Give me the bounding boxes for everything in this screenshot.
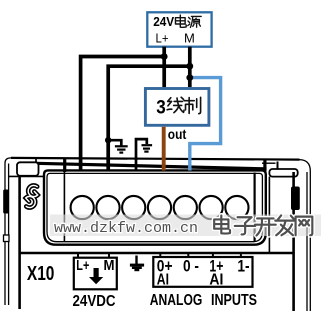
tick M <box>108 254 110 259</box>
brown wire out to analog input 0+ <box>162 127 166 171</box>
left black clip <box>3 190 9 214</box>
tick L+ <box>77 254 79 259</box>
module top step <box>35 159 37 164</box>
watermark text 电子开发网 <box>214 215 312 235</box>
3-wire transducer box 3线制 <box>145 89 209 126</box>
svg-text:24V: 24V <box>153 14 174 29</box>
ground label symbol <box>130 256 144 272</box>
module second top line <box>36 163 267 169</box>
terminal screw 1 <box>71 196 94 219</box>
tick 0+ <box>159 254 161 258</box>
svg-text:out: out <box>168 126 187 142</box>
module top edge <box>11 158 300 160</box>
svg-text:AI: AI <box>157 271 169 288</box>
junction node M lower <box>186 74 193 81</box>
ground symbol 1 bars <box>115 146 128 152</box>
svg-text:M: M <box>104 257 115 274</box>
junction node wire B <box>105 137 111 143</box>
cover right edge upper segment <box>263 159 266 172</box>
wire L+ to module terminal 1 <box>81 57 165 171</box>
tick 1- <box>240 254 242 258</box>
svg-text:0 -: 0 - <box>183 257 199 275</box>
terminal screw 3 <box>122 196 145 219</box>
module outer left edge (double line) <box>5 158 11 305</box>
svg-text:www.dzkfw.com.cn: www.dzkfw.com.cn <box>54 220 198 237</box>
terminal screw 6 <box>200 196 223 219</box>
spring clip logo <box>26 185 38 207</box>
tick 0- <box>187 254 189 258</box>
terminal screw 4 <box>148 196 171 219</box>
wire M to module terminal 2 <box>108 66 190 171</box>
junction node M upper <box>186 63 193 70</box>
svg-text:24VDC: 24VDC <box>73 293 116 310</box>
junction node L+ <box>161 53 168 60</box>
right mounting tab <box>269 169 297 177</box>
cover clip divider <box>63 159 66 172</box>
right panel line <box>268 177 270 253</box>
left notch <box>4 235 10 242</box>
right bracket step <box>277 162 279 170</box>
terminal cover outline <box>44 170 266 244</box>
ground symbol 1 branch <box>108 140 121 145</box>
right thick vertical line <box>292 172 295 311</box>
label box analog inputs <box>153 257 252 287</box>
tick 1+ <box>212 254 214 258</box>
svg-text:L+: L+ <box>76 257 89 274</box>
ground symbol 2 bars <box>142 145 153 151</box>
module face line <box>20 252 294 254</box>
module top-right corner and outer right edges <box>300 160 311 311</box>
svg-text:X10: X10 <box>27 263 55 285</box>
svg-text:1-: 1- <box>237 257 249 275</box>
arrow down <box>89 268 103 284</box>
wire M stub <box>188 47 192 87</box>
terminal screw 2 <box>96 196 119 219</box>
left mounting tab <box>17 162 39 176</box>
watermark band <box>50 215 321 237</box>
svg-text:ANALOG: ANALOG <box>150 292 203 309</box>
blue wire M to analog input 0- <box>190 78 221 171</box>
svg-text:M: M <box>184 30 195 45</box>
svg-text:AI: AI <box>209 271 223 288</box>
cover right divider <box>254 173 256 242</box>
terminal cover inner line <box>47 173 262 241</box>
ground symbol 2 branch <box>136 139 147 171</box>
left thick vertical line <box>18 176 21 309</box>
24V power supply box U1 <box>147 12 211 46</box>
right black clip <box>291 187 300 211</box>
terminal screw 5 <box>174 196 197 219</box>
terminal screw 7 <box>225 196 248 219</box>
label box L+ M <box>74 258 117 290</box>
wire L+ stub <box>162 47 166 87</box>
svg-text:L+: L+ <box>156 30 169 45</box>
svg-text:3: 3 <box>156 97 166 118</box>
left panel top line <box>9 175 44 177</box>
svg-text:INPUTS: INPUTS <box>211 292 257 309</box>
